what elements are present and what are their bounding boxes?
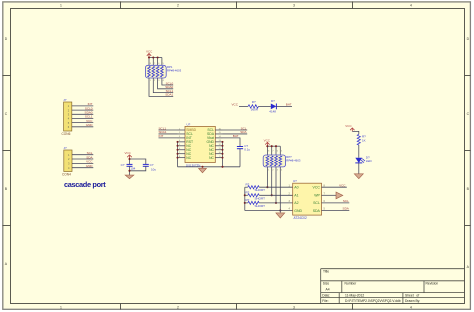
wire U3 SDA1 bbox=[159, 133, 178, 135]
resistor R4 bbox=[245, 198, 265, 208]
svg-text:10u: 10u bbox=[151, 167, 156, 171]
power VCC (LED branch) bbox=[345, 124, 354, 131]
junction bbox=[244, 202, 246, 204]
svg-text:4: 4 bbox=[410, 306, 412, 310]
junction bbox=[279, 209, 281, 211]
svg-text:Date:: Date: bbox=[322, 293, 330, 297]
wire D1 to BAT bbox=[276, 105, 292, 107]
wire U3 Vbat to BAT bbox=[223, 138, 241, 146]
value C3 bbox=[150, 163, 157, 172]
junction bbox=[271, 145, 273, 147]
svg-text:SHORT: SHORT bbox=[255, 188, 266, 192]
svg-text:cascade port: cascade port bbox=[64, 180, 106, 189]
junction bbox=[222, 141, 224, 143]
svg-text:3: 3 bbox=[293, 306, 295, 310]
IC U2 bbox=[293, 179, 322, 220]
svg-text:A4: A4 bbox=[326, 287, 330, 291]
svg-text:U?: U? bbox=[293, 179, 297, 183]
U3 pin names bbox=[186, 128, 214, 160]
junction bbox=[221, 166, 223, 168]
connector J1 CON6 bbox=[62, 98, 72, 136]
svg-text:VCC: VCC bbox=[345, 124, 352, 128]
svg-text:1: 1 bbox=[60, 306, 62, 310]
power VCC (RP1) bbox=[146, 50, 153, 58]
svg-text:104: 104 bbox=[130, 167, 135, 171]
svg-text:4148: 4148 bbox=[269, 109, 276, 113]
svg-text:Title: Title bbox=[323, 270, 329, 274]
svg-text:Revision: Revision bbox=[426, 282, 439, 286]
wire R2 to A0 bbox=[259, 186, 293, 188]
svg-text:SDA: SDA bbox=[86, 155, 93, 159]
wire U3 SCL bbox=[223, 129, 248, 131]
resistor R5 bbox=[357, 134, 360, 145]
wire U2 WP bbox=[322, 194, 337, 196]
wire RP1 common rail bbox=[149, 58, 162, 66]
svg-text:A0: A0 bbox=[294, 186, 298, 190]
wire address rail bbox=[244, 187, 246, 210]
junction bbox=[148, 56, 150, 58]
svg-text:560R: 560R bbox=[251, 107, 259, 111]
svg-text:Drawn By:: Drawn By: bbox=[405, 299, 420, 303]
svg-text:NC: NC bbox=[186, 156, 191, 160]
junction bbox=[271, 194, 273, 196]
U3 pin stubs bbox=[178, 130, 223, 158]
net labels U3 right bbox=[233, 126, 248, 138]
svg-text:VCC: VCC bbox=[125, 151, 132, 155]
svg-text:NC: NC bbox=[209, 156, 214, 160]
RP1 pin numbers bbox=[150, 63, 165, 82]
wire R3 to A1 bbox=[259, 194, 293, 196]
junction bbox=[201, 166, 203, 168]
svg-text:3: 3 bbox=[293, 4, 295, 8]
wire RP2 pin to A1 bbox=[271, 167, 273, 195]
ground (under U3) bbox=[199, 168, 207, 172]
svg-text:Size: Size bbox=[323, 282, 330, 286]
resistor R3 bbox=[245, 191, 265, 201]
svg-text:R?: R? bbox=[246, 191, 250, 195]
svg-text:LED: LED bbox=[366, 159, 373, 163]
svg-text:CON4: CON4 bbox=[62, 172, 71, 176]
svg-text:BAT: BAT bbox=[286, 103, 292, 107]
wire R6 to D1 bbox=[259, 105, 271, 107]
wire C4 to ground rail bbox=[239, 149, 241, 167]
svg-text:C?: C? bbox=[150, 163, 154, 167]
svg-text:U?: U? bbox=[187, 122, 191, 126]
resistor R2 bbox=[245, 183, 265, 193]
wire VCC to R6 bbox=[239, 105, 248, 107]
wire VCC to R5 bbox=[352, 131, 359, 134]
junction bbox=[266, 186, 268, 188]
wire RP2 pin to GND bbox=[279, 167, 281, 211]
wire U3 SCL1 bbox=[159, 129, 178, 131]
junction bbox=[177, 153, 179, 155]
junction bbox=[177, 157, 179, 159]
ground (under caps) bbox=[125, 175, 134, 179]
svg-text:RP#8-4603: RP#8-4603 bbox=[286, 159, 301, 163]
svg-text:VCC: VCC bbox=[339, 183, 346, 187]
value C2 bbox=[121, 163, 136, 171]
wire U3 right NC bus bbox=[222, 142, 224, 167]
svg-text:D:\PJT\TEMP2.0\SPQ2V\SPQ2.V.dd: D:\PJT\TEMP2.0\SPQ2V\SPQ2.V.ddb bbox=[345, 299, 401, 303]
wire U2 SDA bbox=[322, 210, 350, 212]
U3 pin numbers bbox=[179, 128, 222, 158]
svg-text:2: 2 bbox=[177, 4, 179, 8]
svg-text:BAT: BAT bbox=[233, 134, 239, 138]
ground (under LED) bbox=[354, 174, 363, 179]
wire U3 ground rail bbox=[178, 166, 241, 168]
svg-text:2: 2 bbox=[177, 306, 179, 310]
svg-text:11-May-2012: 11-May-2012 bbox=[345, 293, 364, 297]
svg-text:SDA1: SDA1 bbox=[165, 93, 173, 97]
junction bbox=[128, 158, 130, 160]
svg-text:AT24C02: AT24C02 bbox=[294, 216, 307, 220]
svg-text:Sheet of: Sheet of bbox=[405, 293, 419, 297]
svg-text:SDA: SDA bbox=[313, 209, 321, 213]
svg-text:GND: GND bbox=[86, 164, 94, 168]
svg-text:1: 1 bbox=[60, 4, 62, 8]
wire U2 VCC bbox=[322, 186, 347, 188]
svg-text:R?: R? bbox=[252, 100, 256, 104]
junction bbox=[157, 56, 159, 58]
junction bbox=[275, 202, 277, 204]
svg-text:A2: A2 bbox=[294, 201, 298, 205]
junction bbox=[152, 56, 154, 58]
svg-text:VCC: VCC bbox=[146, 50, 153, 54]
svg-text:VCC: VCC bbox=[232, 103, 239, 107]
wire RP2 pin to A2 bbox=[275, 167, 277, 203]
svg-text:WP: WP bbox=[314, 194, 320, 198]
svg-text:1K: 1K bbox=[362, 139, 366, 143]
svg-text:Number: Number bbox=[345, 282, 358, 286]
svg-text:GND: GND bbox=[294, 209, 302, 213]
svg-text:C?: C? bbox=[121, 163, 125, 167]
wire RP1 pin 1 to SDA1 bbox=[149, 78, 173, 96]
wire J2 pins bbox=[72, 155, 93, 168]
svg-text:R?: R? bbox=[246, 198, 250, 202]
junction bbox=[222, 149, 224, 151]
wire cap top rail bbox=[130, 159, 146, 164]
junction bbox=[275, 145, 277, 147]
junction bbox=[128, 170, 130, 172]
junction bbox=[177, 141, 179, 143]
junction bbox=[222, 145, 224, 147]
net labels J1 bbox=[85, 102, 94, 127]
svg-text:GND: GND bbox=[86, 123, 94, 127]
U2 pin names bbox=[294, 186, 320, 213]
resistor R6 bbox=[248, 105, 259, 108]
svg-text:0.1u: 0.1u bbox=[244, 148, 250, 152]
svg-text:CON6: CON6 bbox=[62, 132, 71, 136]
designator RP2 bbox=[286, 155, 301, 163]
title block bbox=[321, 269, 465, 304]
capacitor C3 bbox=[143, 164, 149, 166]
title block text bbox=[322, 270, 438, 303]
LED D2 bbox=[355, 158, 365, 163]
svg-text:SHORT: SHORT bbox=[255, 204, 266, 208]
connector J2 CON4 bbox=[62, 146, 72, 176]
junction bbox=[222, 153, 224, 155]
power VCC (decoupling caps) bbox=[125, 151, 132, 159]
net labels U3 left bbox=[159, 126, 167, 138]
svg-text:File:: File: bbox=[322, 299, 328, 303]
wire RP1 pin 4 to SCL0 bbox=[162, 78, 173, 85]
wire RP1 pin 2 to SCL1 bbox=[153, 78, 173, 93]
wire R5 to D2 bbox=[358, 145, 360, 158]
junction bbox=[177, 149, 179, 151]
power VCC (RP2) bbox=[264, 138, 271, 146]
value C4 bbox=[244, 144, 250, 152]
wire GND row bbox=[245, 210, 293, 212]
svg-text:VCC: VCC bbox=[264, 138, 271, 142]
junction bbox=[222, 157, 224, 159]
diode D1 bbox=[271, 104, 277, 110]
ground (under U2) bbox=[276, 211, 285, 219]
resistor pack RP1 bbox=[145, 65, 166, 78]
junction bbox=[266, 145, 268, 147]
wire RP2 common rail bbox=[267, 146, 280, 155]
IC U3 bbox=[185, 122, 215, 167]
svg-text:4: 4 bbox=[410, 4, 412, 8]
svg-text:A1: A1 bbox=[294, 194, 298, 198]
designator RP1 bbox=[167, 65, 182, 73]
ground (WP, right arrow) bbox=[336, 192, 343, 199]
svg-text:SHORT: SHORT bbox=[255, 196, 266, 200]
RP2 pin numbers bbox=[268, 151, 283, 172]
svg-text:R?: R? bbox=[246, 183, 250, 187]
svg-text:D?: D? bbox=[271, 99, 275, 103]
wire U3 SDA bbox=[223, 133, 248, 135]
wire D2 to ground bbox=[358, 163, 360, 174]
svg-text:J?: J? bbox=[63, 98, 66, 102]
svg-text:SDA: SDA bbox=[343, 207, 350, 211]
capacitor C4 (BAT) bbox=[237, 147, 243, 149]
svg-text:SDA: SDA bbox=[240, 130, 247, 134]
net labels RP1 bbox=[165, 81, 173, 96]
svg-text:INT: INT bbox=[159, 134, 164, 138]
svg-text:SCL: SCL bbox=[313, 201, 320, 205]
wire J1 pins bbox=[72, 106, 94, 127]
wire RP1 pin 3 to SDA0 bbox=[158, 78, 174, 89]
wire cap bottom rail bbox=[130, 166, 146, 175]
wire U3 left NC bus bbox=[177, 142, 179, 167]
svg-text:SCL: SCL bbox=[343, 199, 349, 203]
junction bbox=[244, 194, 246, 196]
svg-text:VCC: VCC bbox=[313, 186, 321, 190]
svg-text:J?: J? bbox=[64, 146, 68, 150]
wire U2 SCL bbox=[322, 202, 350, 204]
svg-text:RP#8-4603: RP#8-4603 bbox=[167, 69, 182, 73]
wire U3 INT bbox=[159, 137, 178, 139]
junction bbox=[177, 145, 179, 147]
U2 pin numbers bbox=[289, 184, 326, 210]
resistor pack RP2 bbox=[263, 155, 285, 167]
wire RP2 pin to A0 bbox=[266, 167, 268, 187]
net labels J2 bbox=[86, 151, 94, 168]
wire R4 to A2 bbox=[259, 202, 293, 204]
capacitor C2 bbox=[127, 164, 133, 166]
